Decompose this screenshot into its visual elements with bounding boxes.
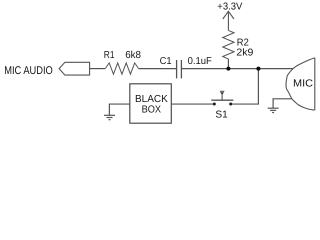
switch S1 tee (220, 90, 224, 92)
ground (right) bar 2 (270, 109, 276, 111)
junction node A dot (R2) (226, 67, 230, 71)
junction node A dot (riser) (256, 67, 260, 71)
svg-text:BLACK: BLACK (135, 94, 168, 105)
svg-text:R1: R1 (104, 50, 115, 61)
svg-text:0.1uF: 0.1uF (188, 56, 212, 67)
svg-text:MIC: MIC (293, 78, 314, 89)
svg-text:2k9: 2k9 (236, 48, 253, 59)
svg-text:BOX: BOX (142, 105, 162, 116)
switch contact dot right (229, 103, 232, 106)
ground (right) bar 3 (272, 112, 274, 114)
ground (left) bar 3 (109, 119, 111, 121)
switch S1 stem (221, 95, 223, 100)
resistor R1 (105, 63, 138, 74)
switch S1 bar (211, 99, 233, 101)
connector J1 MIC AUDIO (59, 62, 90, 75)
wire C1 to MIC (node A) (181, 68, 293, 70)
switch contact dot left (213, 103, 216, 106)
svg-text:C1: C1 (160, 56, 172, 67)
wire mic to ground (273, 99, 292, 108)
resistor R2 (223, 30, 234, 59)
black box U1 (130, 84, 172, 123)
svg-text:+3.3V: +3.3V (217, 2, 242, 13)
ground (right) bar 1 (268, 107, 279, 109)
svg-text:6k8: 6k8 (125, 50, 141, 61)
wire box left to ground (109, 104, 129, 115)
ground (left) bar 1 (104, 114, 115, 116)
capacitor C1 plate right (180, 60, 182, 78)
svg-text:S1: S1 (215, 109, 228, 120)
microphone MIC body (286, 58, 315, 110)
svg-text:MIC AUDIO: MIC AUDIO (4, 65, 53, 77)
wire S1 to riser and node A (231, 69, 259, 104)
wire box right to S1 (171, 103, 213, 105)
capacitor C1 plate left (176, 60, 178, 78)
power +3.3V arrow (227, 11, 229, 30)
ground (left) bar 2 (107, 117, 113, 119)
wire connector to R1 (90, 68, 106, 70)
switch S1 actuator arrow (220, 92, 224, 95)
wire R1 to C1 (139, 68, 176, 70)
wire R2 to node A (227, 59, 229, 69)
